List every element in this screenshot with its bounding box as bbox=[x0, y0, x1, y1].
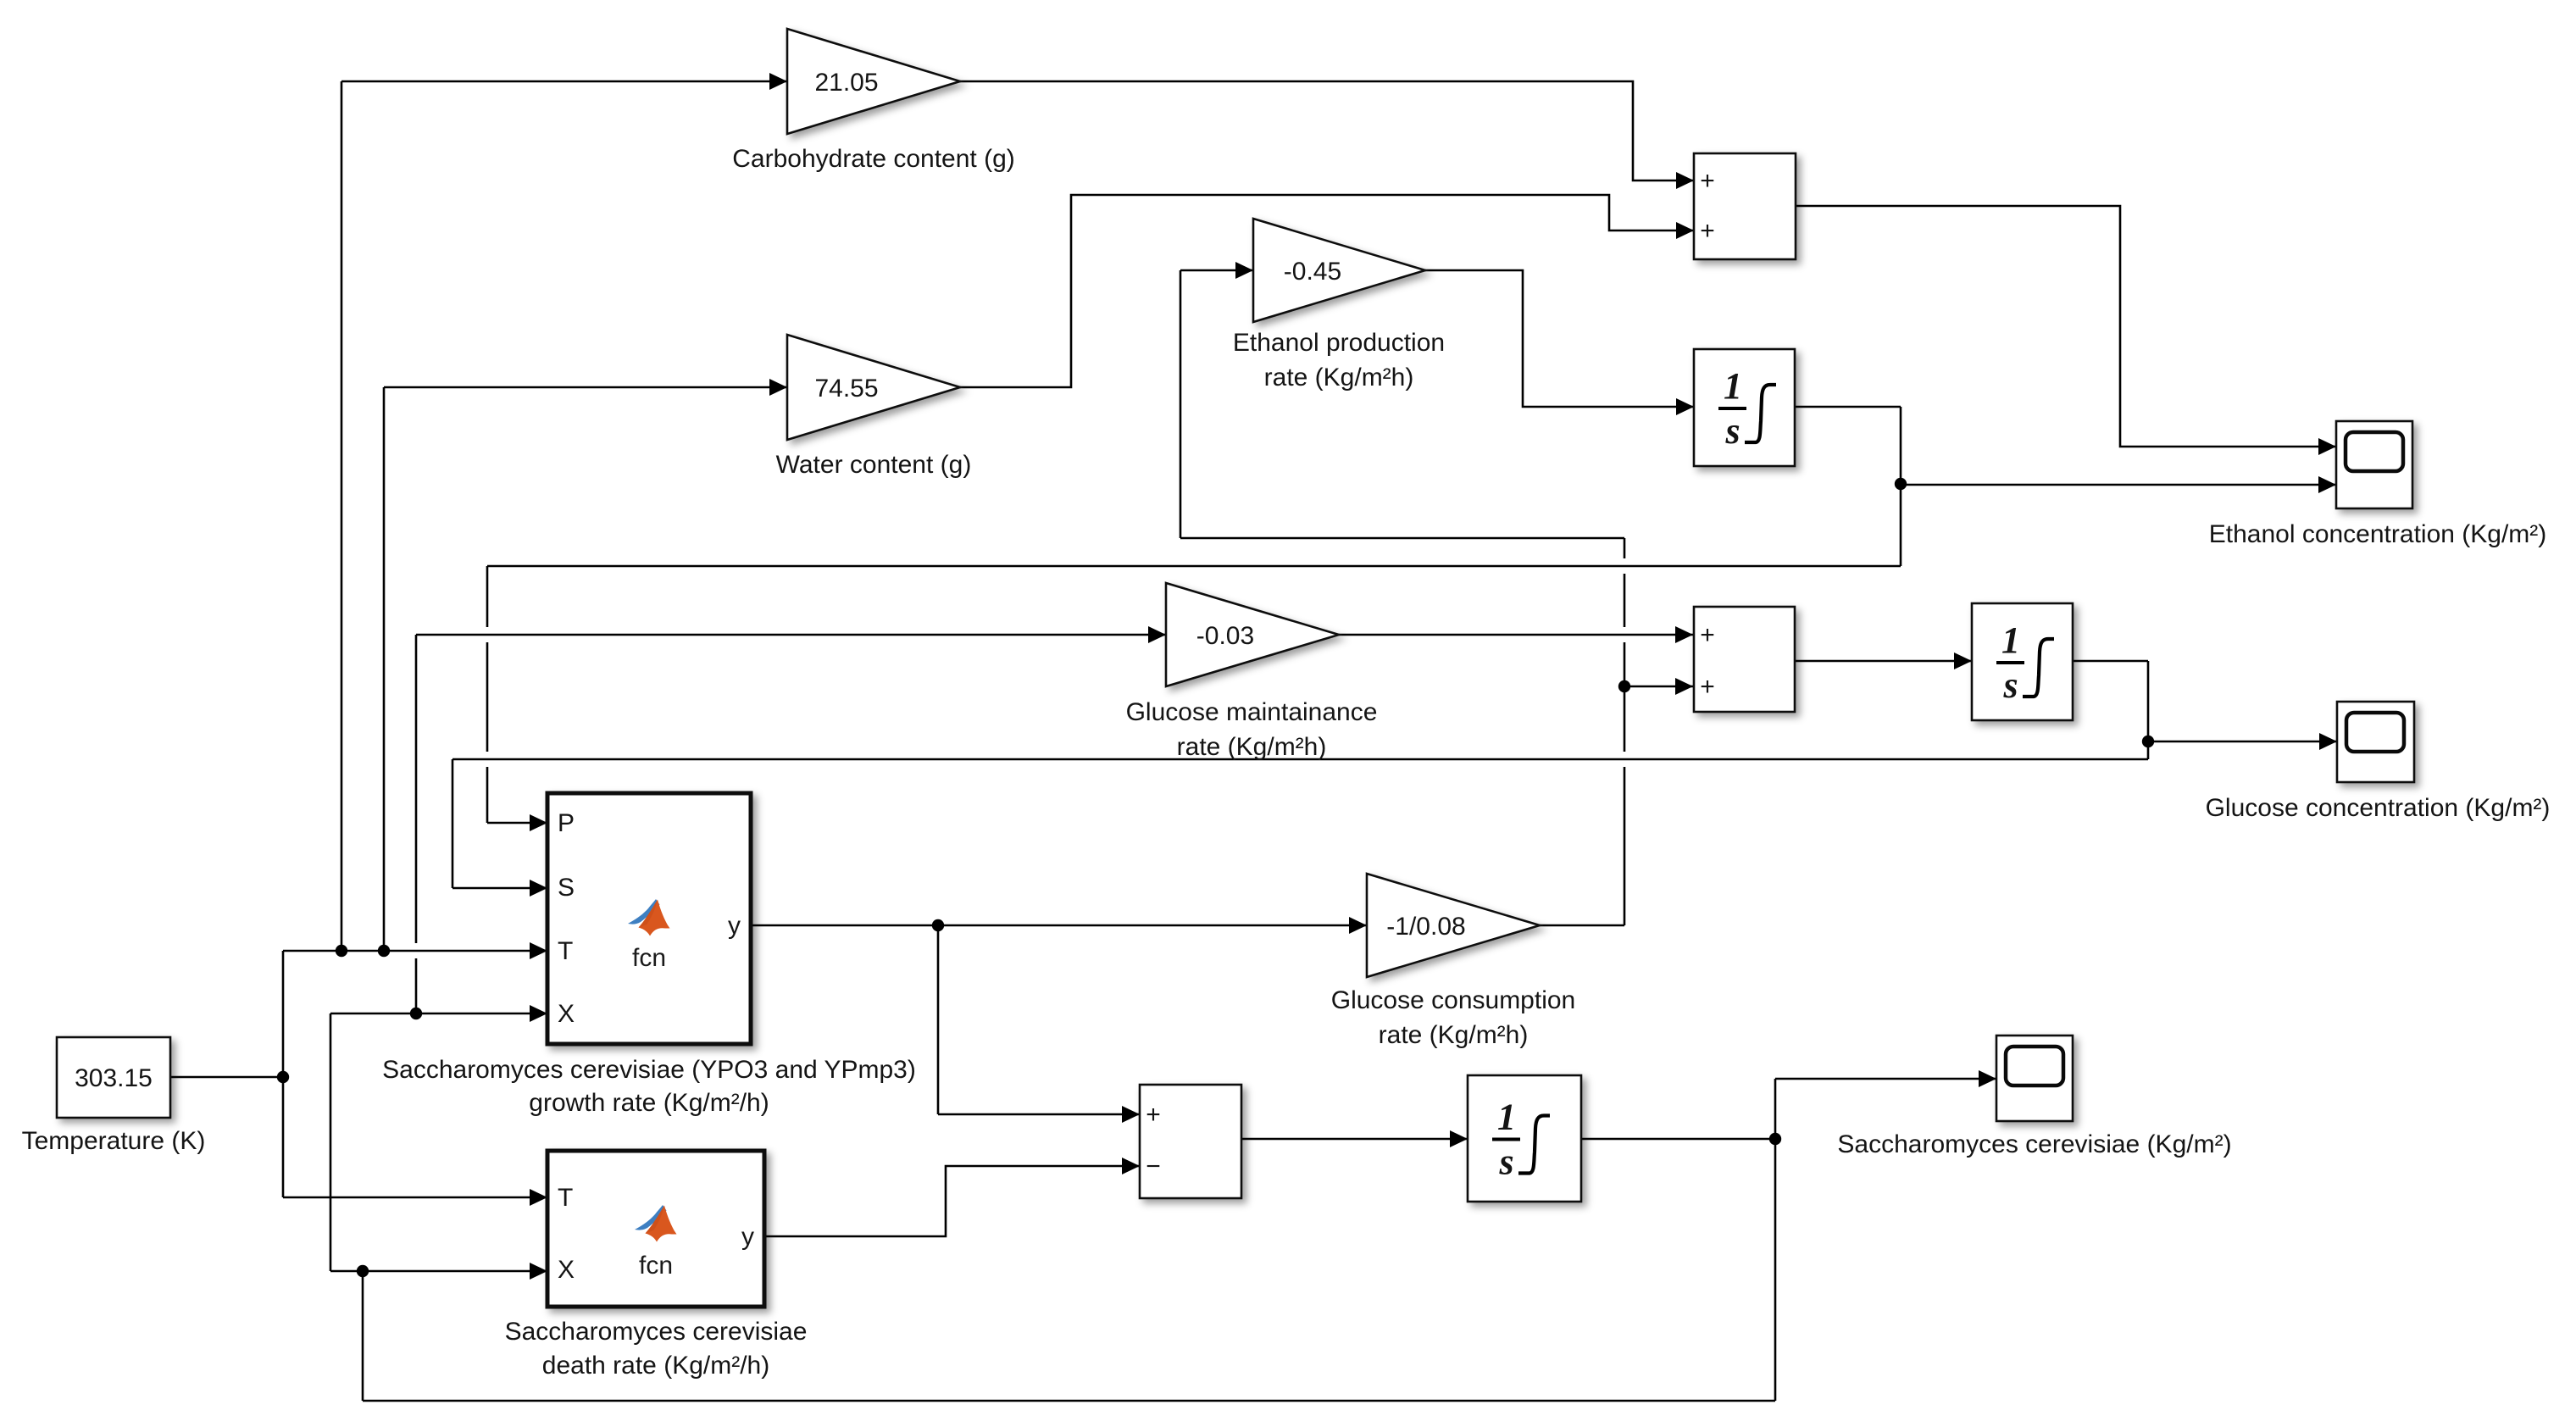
svg-text:+: + bbox=[1700, 167, 1715, 195]
svg-text:−: − bbox=[1146, 1152, 1161, 1180]
svg-text:rate (Kg/m²h): rate (Kg/m²h) bbox=[1379, 1021, 1529, 1049]
svg-text:Glucose consumption: Glucose consumption bbox=[1331, 986, 1576, 1014]
svg-text:Temperature (K): Temperature (K) bbox=[22, 1127, 206, 1155]
svg-text:y: y bbox=[741, 1223, 754, 1251]
svg-text:Saccharomyces cerevisiae (YPO3: Saccharomyces cerevisiae (YPO3 and YPmp3… bbox=[382, 1056, 916, 1084]
svg-text:+: + bbox=[1700, 217, 1715, 245]
svg-text:+: + bbox=[1146, 1101, 1161, 1129]
svg-text:303.15: 303.15 bbox=[75, 1064, 153, 1092]
svg-text:fcn: fcn bbox=[639, 1252, 673, 1280]
svg-text:+: + bbox=[1700, 673, 1715, 701]
svg-text:-0.45: -0.45 bbox=[1284, 258, 1341, 286]
svg-text:Glucose concentration (Kg/m²): Glucose concentration (Kg/m²) bbox=[2206, 794, 2551, 822]
svg-text:s: s bbox=[2002, 664, 2018, 706]
svg-text:Saccharomyces cerevisiae (Kg/m: Saccharomyces cerevisiae (Kg/m²) bbox=[1837, 1130, 2231, 1158]
svg-text:Water content (g): Water content (g) bbox=[776, 451, 972, 479]
svg-text:growth rate (Kg/m²/h): growth rate (Kg/m²/h) bbox=[529, 1089, 769, 1117]
svg-text:rate (Kg/m²h): rate (Kg/m²h) bbox=[1264, 364, 1414, 391]
svg-text:1: 1 bbox=[1724, 365, 1742, 407]
svg-text:Glucose maintainance: Glucose maintainance bbox=[1126, 698, 1378, 726]
svg-text:death rate (Kg/m²/h): death rate (Kg/m²/h) bbox=[542, 1352, 769, 1380]
svg-text:74.55: 74.55 bbox=[814, 375, 878, 403]
svg-text:P: P bbox=[558, 809, 575, 837]
svg-text:fcn: fcn bbox=[632, 944, 666, 972]
svg-text:s: s bbox=[1724, 410, 1740, 452]
svg-text:Ethanol production: Ethanol production bbox=[1233, 329, 1445, 357]
svg-text:X: X bbox=[558, 1256, 575, 1284]
svg-text:Carbohydrate content (g): Carbohydrate content (g) bbox=[732, 145, 1015, 173]
svg-text:X: X bbox=[558, 1000, 575, 1028]
svg-text:T: T bbox=[558, 937, 573, 965]
svg-text:-1/0.08: -1/0.08 bbox=[1386, 913, 1465, 941]
svg-text:-0.03: -0.03 bbox=[1196, 622, 1254, 650]
svg-text:rate (Kg/m²h): rate (Kg/m²h) bbox=[1177, 733, 1327, 761]
svg-text:1: 1 bbox=[2001, 619, 2020, 661]
svg-text:1: 1 bbox=[1497, 1097, 1516, 1138]
svg-text:T: T bbox=[558, 1184, 573, 1212]
svg-text:Saccharomyces cerevisiae: Saccharomyces cerevisiae bbox=[505, 1318, 808, 1346]
svg-text:+: + bbox=[1700, 621, 1715, 649]
svg-text:y: y bbox=[728, 912, 741, 940]
svg-text:Ethanol concentration (Kg/m²): Ethanol concentration (Kg/m²) bbox=[2209, 520, 2547, 548]
svg-text:21.05: 21.05 bbox=[814, 69, 878, 97]
svg-text:S: S bbox=[558, 874, 575, 902]
svg-text:s: s bbox=[1498, 1141, 1513, 1183]
